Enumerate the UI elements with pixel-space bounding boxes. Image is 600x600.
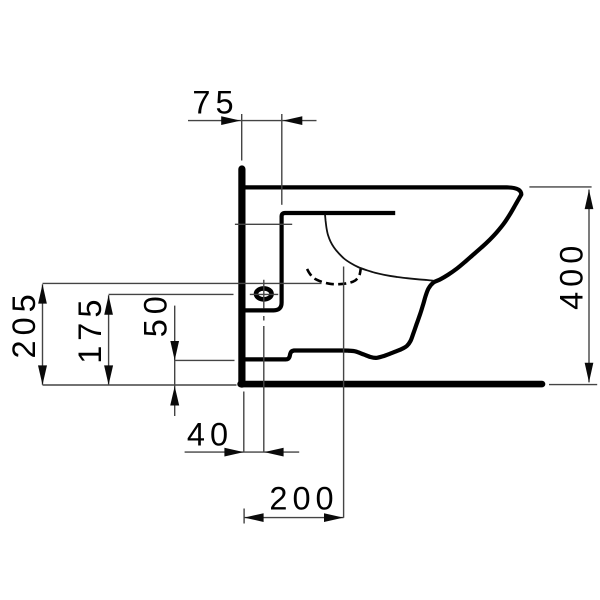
svg-text:400: 400: [554, 241, 590, 310]
svg-text:75: 75: [192, 85, 238, 121]
svg-text:200: 200: [269, 481, 338, 517]
dimension 40 arrow left: [264, 448, 283, 457]
dimension 200 arrow left: [244, 513, 263, 522]
bowl inner curve: [325, 215, 433, 281]
dimension 205 arrow down: [38, 365, 47, 385]
dimension 175 line: [108, 295, 110, 385]
dimension 50 arrow down: [170, 341, 179, 360]
dimension 175 arrow up: [104, 295, 113, 314]
svg-text:205: 205: [6, 289, 42, 358]
dimension 400 line: [588, 190, 590, 383]
dimension 75 arrow left: [283, 116, 302, 125]
wall: [238, 169, 245, 384]
bolt centerline vertical: [263, 280, 265, 452]
outlet centerline: [343, 267, 345, 518]
wall face extension line: [243, 392, 245, 524]
bolt crosshair horizontal: [250, 293, 278, 295]
dimension 75 extension left: [241, 114, 243, 161]
dimension 50 arrow up: [170, 386, 179, 405]
svg-text:175: 175: [72, 295, 108, 364]
inner rim line and mounting bracket outline: [245, 213, 395, 310]
dimension 40 line: [185, 451, 300, 453]
dimension 400 extension top: [529, 186, 591, 188]
floor extension line: [43, 384, 237, 386]
dimension 205 line: [42, 284, 44, 385]
dimension 175 extension top: [109, 293, 234, 295]
dimension 50 line: [174, 306, 176, 416]
dimension 75 extension right: [281, 114, 283, 205]
dimension 200 arrow right: [324, 513, 343, 522]
bolt hole: [256, 288, 272, 299]
toilet outer outline: [245, 187, 521, 359]
dimension 175 arrow down: [104, 365, 113, 385]
dimension 200 line: [244, 517, 343, 519]
floor: [241, 381, 542, 388]
dimension 205 arrow up: [38, 284, 47, 304]
dimension 40 arrow right: [224, 448, 243, 457]
dimension 205 extension top: [43, 282, 322, 284]
dimension 75 arrow right: [221, 116, 240, 125]
seat level line: [235, 223, 292, 225]
dimension 75 line: [188, 120, 317, 122]
dimension 400 extension bottom: [549, 384, 597, 386]
dimension 400 arrow up: [585, 190, 594, 209]
svg-text:50: 50: [138, 291, 174, 337]
hidden trap dashed curve: [307, 269, 361, 284]
dimension 50 extension: [175, 359, 235, 361]
svg-text:40: 40: [187, 416, 233, 452]
dimension 400 arrow down: [585, 363, 594, 383]
